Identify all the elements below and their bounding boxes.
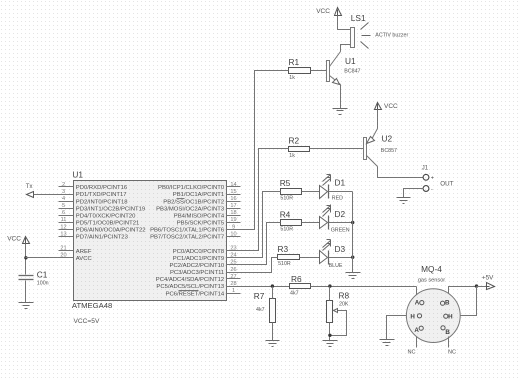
svg-text:4: 4 xyxy=(62,196,65,202)
power +5V arrow xyxy=(477,283,495,290)
power VCC label left xyxy=(7,235,21,242)
sensor MQ-4 pin H right xyxy=(444,314,453,321)
svg-text:PB1/OC1A/PCINT1: PB1/OC1A/PCINT1 xyxy=(173,192,224,198)
svg-text:R8: R8 xyxy=(339,291,350,301)
resistor R3 value xyxy=(278,261,291,267)
IC U1 ATMEGA48 body xyxy=(74,181,227,301)
transistor U1 emitter line xyxy=(330,76,341,85)
svg-text:PD6/AIN0/OC0A/PCINT22: PD6/AIN0/OC0A/PCINT22 xyxy=(76,228,146,234)
wire R8 top xyxy=(329,287,331,301)
connector J1 minus label xyxy=(431,186,433,192)
svg-text:OUT: OUT xyxy=(440,181,453,188)
IC U1 right pin 19 (PB5/SCK/PCINT5) xyxy=(177,217,241,226)
sensor MQ-4 sublabel xyxy=(418,277,445,283)
capacitor C1 value xyxy=(37,281,49,287)
svg-text:D1: D1 xyxy=(335,178,346,188)
svg-text:VCC: VCC xyxy=(384,103,398,110)
wire VCC to U2 emitter xyxy=(377,110,379,129)
resistor R6 xyxy=(290,284,311,289)
svg-text:H: H xyxy=(410,313,415,320)
overline RESET on pin 1 name xyxy=(179,290,199,292)
svg-text:C1: C1 xyxy=(37,269,48,279)
junction dot LED bus D3 xyxy=(351,256,354,259)
sensor MQ-4 pin H left xyxy=(410,313,421,320)
svg-text:27: 27 xyxy=(230,274,236,280)
wire U2 collector to J1 xyxy=(378,167,424,178)
transistor U2 designator xyxy=(382,134,393,144)
svg-text:PC5/ADC5/SCL/PCINT13: PC5/ADC5/SCL/PCINT13 xyxy=(156,284,224,290)
wire VCC rail down to C1 xyxy=(25,244,27,275)
resistor R7 xyxy=(270,299,276,323)
svg-text:26: 26 xyxy=(230,267,236,273)
sensor MQ-4 pin A bottom xyxy=(414,326,423,334)
wire Tx to pin 3 xyxy=(34,194,74,196)
LED D3 designator xyxy=(335,244,346,254)
transistor U2 collector line xyxy=(367,156,378,167)
svg-text:4k7: 4k7 xyxy=(290,291,299,297)
wire sensor A-top stub xyxy=(416,287,418,295)
svg-text:PC3/ADC3/PCINT11: PC3/ADC3/PCINT11 xyxy=(170,270,224,276)
power +5V label xyxy=(482,274,494,281)
wire pin9 to R1 xyxy=(241,71,289,230)
junction dot +5V xyxy=(475,284,478,287)
wire sensor B-top to +5V xyxy=(449,287,477,294)
svg-text:6: 6 xyxy=(62,210,65,216)
IC U1 left pin 21 (AREF) xyxy=(59,246,92,255)
svg-text:20K: 20K xyxy=(339,301,349,307)
IC U1 left pin 20 (AVCC) xyxy=(59,253,93,262)
wire R3 to D3 xyxy=(300,257,320,259)
svg-text:R2: R2 xyxy=(289,136,300,146)
svg-text:24: 24 xyxy=(230,253,236,259)
svg-text:MQ-4: MQ-4 xyxy=(421,264,442,274)
svg-text:25: 25 xyxy=(230,260,236,266)
resistor R3 xyxy=(278,255,300,260)
svg-text:+: + xyxy=(431,175,434,181)
potentiometer R8 wiper xyxy=(330,309,347,336)
potentiometer R8 body xyxy=(327,301,333,323)
LED D2 xyxy=(320,205,331,230)
sensor MQ-4 pin B top xyxy=(441,299,450,306)
svg-text:2: 2 xyxy=(62,182,65,188)
loudspeaker LS1 label xyxy=(351,13,366,23)
transistor U1 collector line xyxy=(330,52,341,67)
wire R1 to U1 base xyxy=(311,70,327,72)
svg-text:NC: NC xyxy=(407,350,415,356)
svg-text:19: 19 xyxy=(230,217,236,223)
svg-text:R3: R3 xyxy=(278,244,289,254)
ground below J1 xyxy=(397,198,411,204)
svg-text:BC847: BC847 xyxy=(344,68,360,74)
IC U1 right pin 28 (PC5/ADC5/SCL/PCINT13) xyxy=(156,281,240,290)
IC U1 left pin 6 (PD4/T0/XCK/PCINT20) xyxy=(59,210,137,219)
resistor R5 label xyxy=(280,178,291,188)
svg-text:VCC: VCC xyxy=(316,8,330,15)
svg-text:ACTIV buzzer: ACTIV buzzer xyxy=(375,32,408,38)
wire U1 emitter to ground xyxy=(340,85,342,109)
resistor R5 value xyxy=(280,195,293,201)
wire R8 bottom xyxy=(329,323,331,341)
resistor R4 label xyxy=(280,209,291,219)
power VCC symbol left xyxy=(23,237,30,245)
transistor U2 type label xyxy=(381,148,397,154)
LED D2 designator xyxy=(335,209,346,219)
svg-text:VCC=5V: VCC=5V xyxy=(74,318,100,325)
IC U1 VCC=5V label xyxy=(74,318,100,325)
IC U1 right pin 15 (PB1/OC1A/PCINT1) xyxy=(173,189,241,198)
transistor U1 type label xyxy=(344,68,360,74)
wire D1 to LED bus xyxy=(329,191,353,193)
IC U1 left pin 2 (PD0/RXD/PCINT16) xyxy=(59,182,128,191)
svg-text:PD1/TXD/PCINT17: PD1/TXD/PCINT17 xyxy=(76,192,127,198)
IC U1 right pin 10 (PB7/TOSC2/XTAL2/PCINT7) xyxy=(150,231,240,240)
junction dot AVCC branch xyxy=(24,256,27,259)
svg-text:NC: NC xyxy=(448,350,456,356)
wire R4 to D2 xyxy=(302,222,320,224)
svg-text:GREEN: GREEN xyxy=(331,228,350,234)
svg-text:B: B xyxy=(445,329,450,336)
svg-text:PB5/SCK/PCINT5: PB5/SCK/PCINT5 xyxy=(177,221,225,227)
wire pin23 to R2 xyxy=(241,149,289,251)
power VCC symbol top xyxy=(335,8,342,16)
svg-text:A: A xyxy=(415,299,420,306)
wire pin25 to R4 xyxy=(241,223,281,265)
power VCC label U2 xyxy=(384,103,398,110)
svg-text:18: 18 xyxy=(230,210,236,216)
ground left of sensor xyxy=(380,340,395,346)
svg-text:28: 28 xyxy=(230,281,236,287)
wire VCC to buzzer xyxy=(338,16,351,30)
svg-text:14: 14 xyxy=(230,182,236,188)
svg-text:-: - xyxy=(431,186,433,192)
svg-text:B: B xyxy=(445,299,450,306)
buzzer LS1 plate xyxy=(351,28,355,48)
wire AVCC branch xyxy=(26,257,74,259)
svg-text:23: 23 xyxy=(230,246,236,252)
LED D1 color label xyxy=(332,196,343,202)
wire R7 top xyxy=(272,287,274,299)
svg-text:13: 13 xyxy=(60,231,66,237)
resistor R8 value xyxy=(339,301,349,307)
IC U1 left pin 4 (PD2/INT0/PCINT18) xyxy=(59,196,129,205)
ground below C1 xyxy=(19,303,34,309)
svg-text:PC2/ADC2/PCINT10: PC2/ADC2/PCINT10 xyxy=(170,263,225,269)
resistor R4 value xyxy=(280,227,293,233)
svg-text:PB7/TOSC2/XTAL2/PCINT7: PB7/TOSC2/XTAL2/PCINT7 xyxy=(150,235,224,241)
wire sensor H-left to ground xyxy=(387,316,407,340)
svg-text:PD2/INT0/PCINT18: PD2/INT0/PCINT18 xyxy=(76,199,128,205)
svg-text:PC4/ADC4/SDA/PCINT12: PC4/ADC4/SDA/PCINT12 xyxy=(156,277,224,283)
resistor R1 xyxy=(289,68,311,74)
svg-text:510R: 510R xyxy=(280,227,293,233)
svg-text:U1: U1 xyxy=(72,170,83,180)
svg-text:U2: U2 xyxy=(382,134,393,144)
svg-text:11: 11 xyxy=(61,217,67,223)
resistor R2 xyxy=(289,147,310,152)
svg-text:PB3/MOSI/OC2A/PCINT3: PB3/MOSI/OC2A/PCINT3 xyxy=(156,206,225,212)
sensor MQ-4 pin B bottom xyxy=(441,326,450,336)
IC U1 left pin 11 (PD5/T1/OC0B/PCINT21) xyxy=(59,217,140,226)
connector J1 pin + circle xyxy=(423,174,429,180)
sensor MQ-4 body circle xyxy=(406,289,460,343)
IC U1 right pin 26 (PC3/ADC3/PCINT11) xyxy=(170,267,241,276)
LED D3 color label xyxy=(329,263,343,269)
junction dot R8 wiper xyxy=(328,334,331,337)
sensor MQ-4 label xyxy=(421,264,442,274)
ground below U1 emitter xyxy=(333,109,348,115)
transistor Q U1 base bar xyxy=(327,61,330,82)
svg-text:A: A xyxy=(414,327,419,334)
power VCC label top xyxy=(316,8,330,15)
svg-text:ATMEGA48: ATMEGA48 xyxy=(72,301,112,310)
svg-text:1k: 1k xyxy=(289,75,295,81)
IC U1 part name label xyxy=(72,301,112,310)
svg-text:5: 5 xyxy=(62,203,65,209)
transistor U1 designator xyxy=(345,56,356,66)
svg-text:R4: R4 xyxy=(280,209,291,219)
transistor Q U2 base bar xyxy=(364,138,367,160)
sensor MQ-4 pin A top xyxy=(415,299,424,306)
IC U1 right pin 17 (PB3/MOSI/OC2A/PCINT3) xyxy=(156,203,240,212)
resistor R8 label xyxy=(339,291,350,301)
overline SS on pin 16 name xyxy=(177,198,185,200)
svg-text:+5V: +5V xyxy=(482,274,494,281)
IC U1 right pin 16 (PB2/SS/OC1B/PCINT2) xyxy=(163,196,240,205)
LED D2 color label xyxy=(331,228,350,234)
svg-text:9: 9 xyxy=(232,224,235,230)
svg-text:1k: 1k xyxy=(289,153,295,159)
wire sensor B-bottom NC stub xyxy=(448,337,456,356)
svg-text:Tx: Tx xyxy=(26,184,33,190)
wire D2 to LED bus xyxy=(329,222,353,224)
svg-text:21: 21 xyxy=(60,246,66,252)
resistor R6 label xyxy=(291,274,302,284)
IC U1 left pin 13 (PD7/AIN1/PCINT23) xyxy=(59,231,129,240)
resistor R4 xyxy=(281,220,302,226)
node Tx label xyxy=(26,184,33,190)
junction dot LED bus D2 xyxy=(351,221,354,224)
junction dot R7 top xyxy=(271,284,274,287)
resistor R1 value xyxy=(289,75,295,81)
IC U1 right pin 18 (PB4/MISO/PCINT4) xyxy=(174,210,241,219)
resistor R7 value xyxy=(256,307,265,313)
svg-text:12: 12 xyxy=(60,224,66,230)
svg-text:PC6/RESET/PCINT14: PC6/RESET/PCINT14 xyxy=(166,291,225,297)
capacitor C1 xyxy=(19,276,34,280)
svg-text:PB0/ICP1/CLKO/PCINT0: PB0/ICP1/CLKO/PCINT0 xyxy=(158,185,225,191)
svg-text:D3: D3 xyxy=(335,244,346,254)
svg-text:R1: R1 xyxy=(289,57,300,67)
svg-text:PD7/AIN1/PCINT23: PD7/AIN1/PCINT23 xyxy=(76,235,129,241)
resistor R5 xyxy=(281,189,302,195)
svg-text:D2: D2 xyxy=(335,209,346,219)
IC U1 right pin 27 (PC4/ADC4/SDA/PCINT12) xyxy=(156,274,241,283)
svg-text:PD0/RXD/PCINT16: PD0/RXD/PCINT16 xyxy=(76,185,128,191)
svg-text:BLUE: BLUE xyxy=(329,263,343,269)
svg-text:PB6/TOSC1/XTAL1/PCINT6: PB6/TOSC1/XTAL1/PCINT6 xyxy=(150,228,225,234)
IC U1 right pin 25 (PC2/ADC2/PCINT10) xyxy=(170,260,241,269)
svg-text:10: 10 xyxy=(230,231,236,237)
svg-text:17: 17 xyxy=(230,203,236,209)
svg-text:PB4/MISO/PCINT4: PB4/MISO/PCINT4 xyxy=(174,213,225,219)
resistor R7 label xyxy=(254,291,265,301)
junction dot R8 top xyxy=(328,284,331,287)
svg-text:PB2/SS/OC1B/PCINT2: PB2/SS/OC1B/PCINT2 xyxy=(163,199,224,205)
svg-text:16: 16 xyxy=(230,196,236,202)
svg-text:4k7: 4k7 xyxy=(256,307,265,313)
LED D3 xyxy=(320,240,331,265)
svg-text:R6: R6 xyxy=(291,274,302,284)
svg-text:AREF: AREF xyxy=(76,249,92,255)
capacitor C1 label xyxy=(37,269,48,279)
wire J1 minus to ground xyxy=(404,189,424,198)
IC U1 left pin 3 (PD1/TXD/PCINT17) xyxy=(59,189,127,198)
wire D3 to LED bus xyxy=(329,257,353,259)
LED D1 designator xyxy=(335,178,346,188)
svg-text:PD5/T1/OC0B/PCINT21: PD5/T1/OC0B/PCINT21 xyxy=(76,221,140,227)
IC U1 left pin 12 (PD6/AIN0/OC0A/PCINT22) xyxy=(59,224,146,233)
wire R5 to D1 xyxy=(302,191,320,193)
power VCC symbol U2 xyxy=(375,103,382,111)
ground below R8 xyxy=(323,341,338,347)
buzzer LS1 note label xyxy=(375,32,408,38)
ground below LED bus xyxy=(346,273,361,279)
connector J1 label xyxy=(422,165,429,171)
svg-text:100n: 100n xyxy=(37,281,49,287)
svg-text:gas sensor: gas sensor xyxy=(418,277,445,283)
LED D1 xyxy=(320,175,331,199)
svg-text:PD3/INT1/OC2B/PCINT19: PD3/INT1/OC2B/PCINT19 xyxy=(76,206,145,212)
wire pin24 to R5 xyxy=(241,192,281,258)
wire buzzer to U1 collector xyxy=(341,45,351,52)
IC U1 right pin 14 (PB0/ICP1/CLKO/PCINT0) xyxy=(158,182,240,191)
Tx arrow terminal xyxy=(27,192,34,198)
wire pin28 analog net xyxy=(241,286,290,288)
IC U1 designator label xyxy=(72,170,83,180)
transistor U2 emitter line xyxy=(367,129,378,144)
ground below R7 xyxy=(266,341,280,347)
wire R2 to U2 base xyxy=(310,148,364,150)
wire pin26 to R3 xyxy=(241,258,278,273)
resistor R3 label xyxy=(278,244,289,254)
wire LED cathode bus xyxy=(352,192,354,273)
wire sensor H-right to +5V xyxy=(461,287,477,316)
svg-text:RED: RED xyxy=(332,196,343,202)
connector J1 pin - circle xyxy=(423,186,429,192)
svg-text:BC857: BC857 xyxy=(381,148,397,154)
svg-text:AVCC: AVCC xyxy=(76,256,93,262)
svg-text:R7: R7 xyxy=(254,291,265,301)
svg-text:PC0/ADC0/PCINT8: PC0/ADC0/PCINT8 xyxy=(173,249,225,255)
IC U1 right pin 1 (PC6/RESET/PCINT14) xyxy=(166,288,241,297)
resistor R2 value xyxy=(289,153,295,159)
resistor R1 label xyxy=(289,57,300,67)
connector J1 plus label xyxy=(431,175,434,181)
svg-text:510R: 510R xyxy=(278,261,291,267)
IC U1 right pin 9 (PB6/TOSC1/XTAL1/PCINT6) xyxy=(150,224,240,233)
wire R7 to ground xyxy=(272,323,274,341)
svg-text:15: 15 xyxy=(230,189,236,195)
IC U1 left pin 5 (PD3/INT1/OC2B/PCINT19) xyxy=(59,203,146,212)
IC U1 right pin 23 (PC0/ADC0/PCINT8) xyxy=(173,246,241,255)
svg-text:PC1/ADC1/PCINT9: PC1/ADC1/PCINT9 xyxy=(173,256,224,262)
svg-text:LS1: LS1 xyxy=(351,13,366,23)
svg-text:1: 1 xyxy=(232,288,235,294)
svg-text:PD4/T0/XCK/PCINT20: PD4/T0/XCK/PCINT20 xyxy=(76,213,136,219)
resistor R6 value xyxy=(290,291,299,297)
svg-text:510R: 510R xyxy=(280,195,293,201)
wire sensor A-bottom NC stub xyxy=(407,337,416,356)
svg-text:R5: R5 xyxy=(280,178,291,188)
svg-text:H: H xyxy=(448,314,453,321)
svg-text:U1: U1 xyxy=(345,56,356,66)
wire R6 to sensor xyxy=(311,286,417,288)
OUT net label xyxy=(440,181,453,188)
wire C1 to ground xyxy=(25,281,27,303)
buzzer LS1 sound rays xyxy=(361,23,371,49)
resistor R2 label xyxy=(289,136,300,146)
svg-text:VCC: VCC xyxy=(7,235,21,242)
svg-text:J1: J1 xyxy=(422,165,429,171)
IC U1 right pin 24 (PC1/ADC1/PCINT9) xyxy=(173,253,241,262)
